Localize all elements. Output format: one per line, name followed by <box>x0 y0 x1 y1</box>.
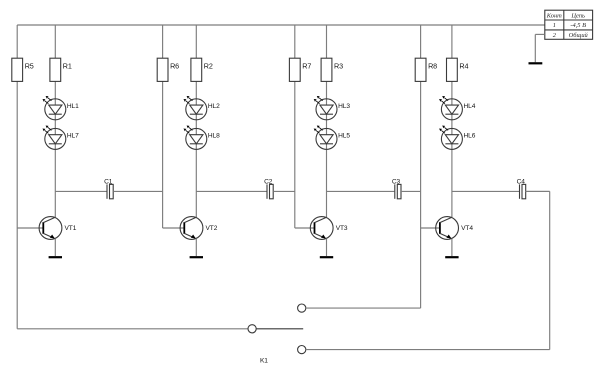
transistor VT1 <box>39 217 77 240</box>
wire: collector line R2/HL2/HL8 to VT2 <box>195 25 197 217</box>
wire: C2 to next base node <box>273 190 295 192</box>
wire: C3 to next base node <box>401 190 421 192</box>
resistor R2 <box>191 58 213 81</box>
svg-text:R7: R7 <box>302 61 311 70</box>
svg-text:R4: R4 <box>459 61 468 70</box>
wire: collector line R1/HL1/HL7 to VT1 <box>54 25 56 217</box>
switch K1 pole contact <box>248 325 256 333</box>
svg-text:HL7: HL7 <box>67 133 79 140</box>
svg-text:HL8: HL8 <box>208 133 220 140</box>
connector pin table (Конт/Цепь) <box>545 10 593 39</box>
svg-text:R5: R5 <box>25 61 34 70</box>
LED HL8 <box>184 126 221 150</box>
resistor R1 <box>50 58 72 81</box>
wire: collector line R4/HL4/HL6 to VT4 <box>451 25 453 217</box>
wire: lower throw to C4 output <box>306 191 550 349</box>
svg-text:VT3: VT3 <box>336 225 348 232</box>
wire: bias line R7 to base of VT3 <box>295 25 315 228</box>
wire: collector of VT3 to C3 <box>327 190 395 192</box>
wire: collector of VT4 to C4 <box>452 190 519 192</box>
svg-text:HL1: HL1 <box>67 103 79 110</box>
svg-text:Конт: Конт <box>546 12 562 19</box>
svg-text:HL3: HL3 <box>338 103 350 110</box>
capacitor C1 <box>104 178 113 199</box>
transistor VT2 <box>180 217 218 240</box>
wire: top supply bus (-4,5 V) <box>17 24 545 26</box>
capacitor C4 <box>517 178 526 199</box>
LED HL4 <box>439 96 476 120</box>
resistor R3 <box>321 58 343 81</box>
svg-text:HL5: HL5 <box>338 133 350 140</box>
wire: emitter of VT2 to ground <box>195 239 197 256</box>
resistor R7 <box>289 58 311 81</box>
svg-text:VT2: VT2 <box>206 225 218 232</box>
switch K1 upper throw contact <box>298 304 306 312</box>
wire: C1 to next base node <box>113 190 162 192</box>
LED HL1 <box>43 96 80 120</box>
resistor R5 <box>12 58 34 81</box>
svg-text:Цепь: Цепь <box>570 12 585 19</box>
svg-text:R2: R2 <box>204 61 213 70</box>
wire: pin 2 to ground <box>535 34 545 62</box>
transistor VT4 <box>436 217 474 240</box>
wire: C4 to next base node <box>526 190 550 192</box>
wire: emitter of VT1 to ground <box>54 239 56 256</box>
LED HL6 <box>439 126 476 150</box>
svg-text:K1: K1 <box>260 358 268 365</box>
svg-text:C3: C3 <box>392 178 401 185</box>
wire: emitter of VT3 to ground <box>326 239 328 256</box>
svg-text:HL6: HL6 <box>464 133 476 140</box>
svg-text:R1: R1 <box>63 61 72 70</box>
ground under VT4 <box>445 256 458 258</box>
switch K1 lower throw contact <box>298 346 306 354</box>
ground at connector pin 2 <box>529 62 543 64</box>
LED HL5 <box>314 126 351 150</box>
svg-text:C1: C1 <box>104 178 113 185</box>
svg-text:HL4: HL4 <box>464 103 476 110</box>
transistor VT3 <box>310 217 348 240</box>
LED HL7 <box>43 126 80 150</box>
label K1 <box>260 358 268 365</box>
svg-text:R6: R6 <box>170 61 179 70</box>
svg-text:VT4: VT4 <box>461 225 473 232</box>
wire: emitter of VT4 to ground <box>451 239 453 256</box>
svg-text:-4,5 В: -4,5 В <box>570 22 586 29</box>
wire: bias line R5 / base of VT1 down to bottom bus <box>17 25 43 329</box>
wire: upper throw to base line of VT4 <box>306 307 421 309</box>
ground under VT2 <box>190 256 203 258</box>
svg-text:C2: C2 <box>264 178 273 185</box>
svg-text:1: 1 <box>553 22 556 29</box>
resistor R6 <box>157 58 179 81</box>
switch K1 lever <box>256 328 303 330</box>
resistor R4 <box>447 58 469 81</box>
capacitor C3 <box>392 178 401 199</box>
LED HL2 <box>184 96 221 120</box>
wire: bias line R8 / base of VT4 down to switch throw <box>421 25 440 308</box>
resistor R8 <box>415 58 437 81</box>
svg-text:HL2: HL2 <box>208 103 220 110</box>
wire: collector line R3/HL3/HL5 to VT3 <box>326 25 328 217</box>
wire: bias line R6 to base of VT2 <box>163 25 185 228</box>
ground under VT3 <box>320 256 333 258</box>
wire: collector of VT1 to C1 <box>55 190 106 192</box>
svg-text:C4: C4 <box>517 178 526 185</box>
svg-text:Общий: Общий <box>569 32 589 39</box>
wire: collector of VT2 to C2 <box>196 190 266 192</box>
capacitor C2 <box>264 178 273 199</box>
svg-text:R3: R3 <box>334 61 343 70</box>
LED HL3 <box>314 96 351 120</box>
wire: bottom bus from VT1 base node to switch pole <box>17 328 248 330</box>
svg-text:R8: R8 <box>428 61 437 70</box>
svg-text:VT1: VT1 <box>65 225 77 232</box>
ground under VT1 <box>49 256 62 258</box>
